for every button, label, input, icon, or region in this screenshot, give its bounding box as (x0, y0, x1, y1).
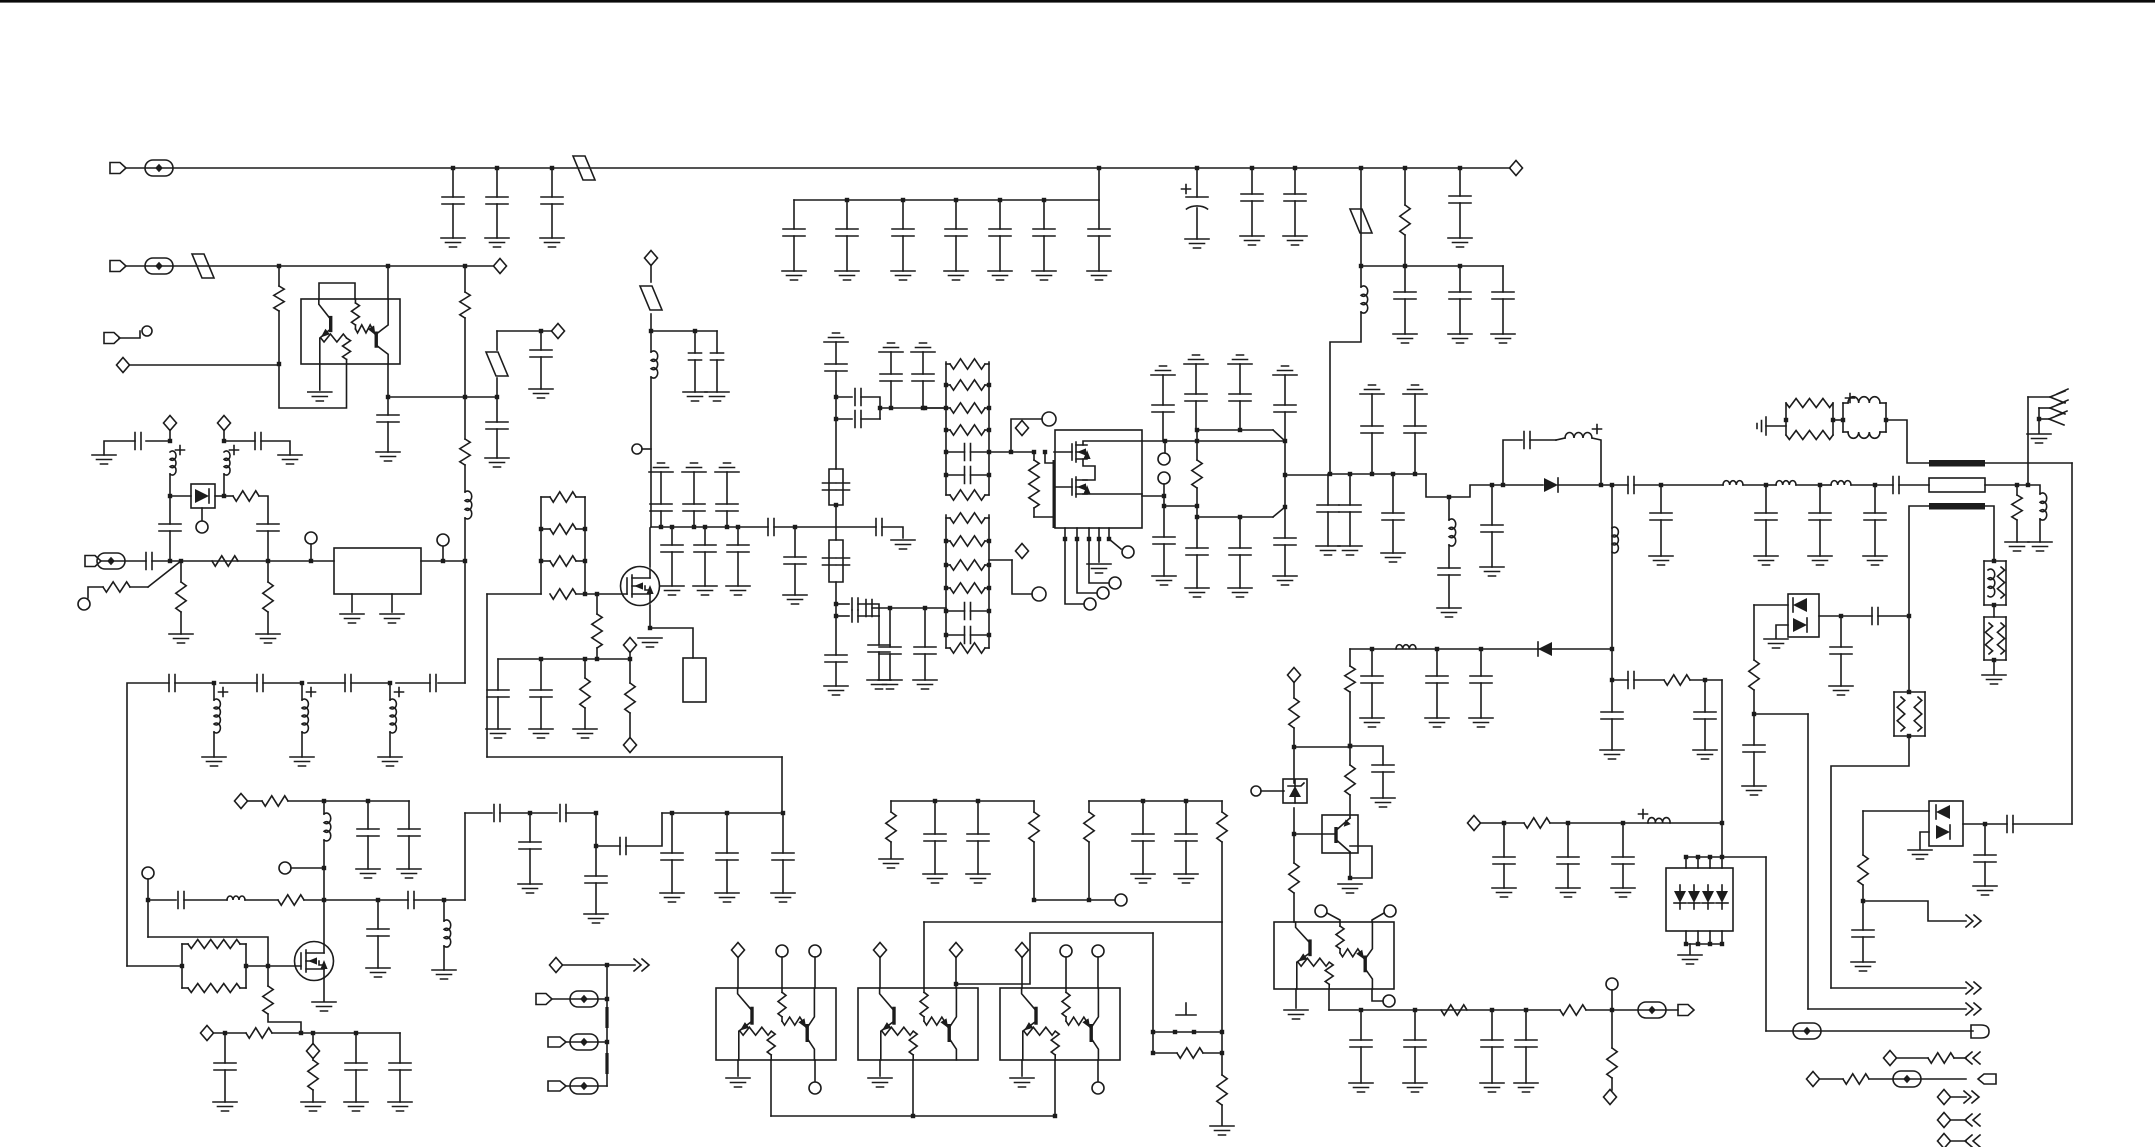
polarity + (395, 688, 404, 697)
diode box D1 (191, 484, 215, 508)
wire (1833, 419, 1843, 421)
wire (355, 1070, 357, 1102)
resistor (950, 536, 985, 546)
wire (388, 396, 497, 398)
ground (1649, 556, 1673, 565)
ground (518, 884, 542, 893)
junction (1162, 494, 1166, 498)
junction (987, 473, 991, 477)
wire (224, 495, 233, 497)
junction (442, 898, 446, 902)
capacitor (257, 524, 279, 531)
wire (529, 813, 531, 842)
wire (1480, 649, 1482, 676)
junction (834, 395, 838, 399)
wire (1436, 649, 1438, 676)
wire (1993, 660, 1995, 674)
ground (1284, 1010, 1308, 1019)
wire (770, 1060, 772, 1116)
wire pin (1697, 857, 1699, 868)
resistor (212, 556, 238, 566)
wire (1899, 484, 1929, 486)
capacitor (1274, 538, 1296, 545)
diode array pin bus (1686, 943, 1722, 945)
ladder right rail (584, 497, 586, 594)
wire rail (1893, 692, 1895, 736)
wire pin (1685, 857, 1687, 868)
wire (1993, 605, 1995, 617)
ground (inverted) (1403, 385, 1427, 394)
wire (1293, 682, 1295, 698)
wire (152, 560, 334, 562)
wire (1043, 236, 1045, 271)
wire (180, 612, 182, 634)
ground (1480, 567, 1504, 576)
wire (1880, 431, 1886, 433)
wire (1951, 1140, 1966, 1142)
wire (1164, 441, 1166, 453)
wire (1459, 299, 1461, 334)
wire (890, 381, 892, 408)
circle terminal (1158, 472, 1170, 484)
junction (376, 898, 380, 902)
resistor (188, 940, 240, 949)
ground (913, 680, 937, 689)
junction (987, 563, 991, 567)
ground (2028, 542, 2052, 551)
wire (878, 616, 880, 645)
input connector J2 (110, 261, 126, 272)
wire pin (1721, 857, 1723, 868)
diamond connector (624, 638, 637, 653)
diode array pin bus (1686, 856, 1766, 858)
ladder A right rail (988, 362, 990, 495)
wire (541, 496, 550, 498)
wire (1221, 1053, 1223, 1075)
capacitor (689, 353, 702, 360)
wire (576, 560, 585, 562)
wire (1021, 957, 1023, 988)
wire (389, 732, 391, 757)
ground (966, 874, 990, 883)
ground (824, 686, 848, 695)
wire top loop (319, 283, 355, 299)
wire (1163, 544, 1165, 576)
inductor (214, 699, 220, 733)
junction (180, 964, 184, 968)
wire (1360, 1010, 1362, 1040)
wire (551, 204, 553, 238)
wire (223, 474, 225, 496)
wire rail (1842, 403, 1844, 432)
junction (1708, 942, 1712, 946)
circle terminal (1032, 587, 1046, 601)
wire (902, 236, 904, 271)
wire (1109, 539, 1121, 549)
wire (169, 430, 171, 441)
junction (1621, 821, 1625, 825)
capacitor (716, 504, 738, 511)
circle terminal (1315, 905, 1327, 917)
diamond connector (218, 416, 231, 431)
wire (596, 845, 620, 847)
wire (584, 659, 586, 678)
wire (1743, 484, 1766, 486)
wire (704, 552, 706, 586)
test point (570, 1078, 598, 1094)
wire (1721, 680, 1723, 857)
wire (835, 505, 837, 540)
circle terminal (809, 1082, 821, 1094)
diamond connector (874, 943, 887, 958)
wire (629, 713, 631, 738)
wire (2039, 418, 2049, 420)
junction (628, 657, 632, 661)
wire (596, 648, 598, 659)
wire (1284, 375, 1286, 405)
junction (670, 811, 674, 815)
wire gate2 (1034, 516, 1054, 518)
wire (650, 628, 693, 658)
wire long (487, 756, 782, 758)
wire (464, 318, 466, 397)
junction (366, 799, 370, 803)
wire rail (1832, 403, 1834, 435)
capacitor (837, 483, 850, 490)
diamond connector (1884, 1051, 1897, 1066)
wire (946, 429, 950, 431)
wire long (1807, 714, 1809, 1009)
capacitor (1350, 1040, 1372, 1047)
capacitor (389, 1063, 411, 1070)
wire (180, 561, 182, 582)
wire (1894, 691, 1925, 693)
wire (215, 495, 224, 497)
capacitor (1809, 513, 1831, 520)
ladder A left rail (945, 362, 947, 495)
ground (715, 893, 739, 902)
junction (1163, 439, 1167, 443)
junction (1490, 483, 1494, 487)
ground (92, 455, 116, 464)
wire (781, 957, 783, 988)
junction (1610, 1008, 1614, 1012)
wire (146, 440, 170, 442)
junction (1042, 198, 1046, 202)
diamond connector (117, 358, 130, 373)
arrow connector (1971, 1025, 1989, 1038)
wire (955, 200, 957, 229)
wire (946, 363, 950, 365)
wire (88, 587, 103, 598)
wire (304, 899, 408, 901)
wire (1371, 394, 1373, 426)
wire (1558, 484, 1628, 486)
capacitor (377, 415, 399, 422)
capacitor (855, 411, 861, 428)
wire (1796, 484, 1820, 486)
wire (245, 899, 278, 901)
junction (1752, 712, 1756, 716)
capacitor to gnd (541, 197, 563, 204)
wire (1951, 1119, 1966, 1121)
ground (529, 389, 553, 398)
wire (224, 440, 255, 442)
wire source link (1083, 459, 1095, 480)
test point (97, 553, 125, 569)
wire (1880, 402, 1886, 404)
wire (1098, 200, 1100, 229)
inductor (1723, 481, 1743, 485)
capacitor (1694, 712, 1716, 719)
junction (463, 395, 467, 399)
wire (1459, 203, 1461, 238)
wire (1689, 944, 1691, 954)
wire (1294, 746, 1350, 748)
junction (659, 525, 663, 529)
inductor (1831, 481, 1851, 485)
test point (570, 991, 598, 1007)
resistor (592, 614, 602, 648)
wire (1704, 719, 1706, 750)
resistor (460, 439, 470, 465)
test point (1793, 1023, 1821, 1039)
capacitor (1361, 426, 1383, 433)
junction (1032, 898, 1036, 902)
wire (971, 451, 990, 453)
dual transistor U1 box (301, 299, 400, 364)
wire (985, 363, 989, 365)
junction (1097, 166, 1101, 170)
wire (1098, 539, 1100, 562)
diode D1 (195, 489, 209, 503)
wire (351, 594, 353, 612)
wire (2027, 397, 2029, 485)
resistor (886, 812, 896, 842)
MOSFET pair gate bar (1053, 460, 1056, 528)
arrow connector (1978, 1074, 1996, 1084)
wire (1707, 885, 1709, 891)
junction (1490, 1008, 1494, 1012)
wire drain (649, 528, 651, 567)
wire (835, 662, 837, 686)
wire (291, 867, 324, 869)
wire (1142, 495, 1164, 497)
wire (1660, 485, 1662, 513)
polarity + (1639, 810, 1648, 819)
wire (1776, 625, 1788, 638)
diamond connector (1016, 544, 1029, 559)
junction (648, 626, 652, 630)
wire (1163, 484, 1165, 496)
wire (1612, 679, 1628, 681)
junction (923, 406, 927, 410)
wire (1327, 913, 1340, 922)
wire (1753, 752, 1755, 786)
wire (367, 836, 369, 869)
ground (1371, 798, 1395, 807)
wire (1163, 506, 1165, 537)
wire (576, 496, 585, 498)
diamond connector (1288, 668, 1301, 683)
junction (1708, 855, 1712, 859)
wire (443, 900, 445, 921)
wire (1065, 539, 1083, 604)
wire (1984, 824, 1986, 855)
junction (987, 539, 991, 543)
resistor (1289, 863, 1299, 893)
junction (888, 606, 892, 610)
test point (570, 1034, 598, 1050)
wire IF (1350, 648, 1612, 650)
ground (726, 1078, 750, 1087)
ground (1210, 1126, 1234, 1135)
capacitor (892, 229, 914, 236)
wire (1221, 1105, 1223, 1125)
junction (1075, 537, 1079, 541)
wire (1293, 747, 1295, 783)
capacitor (494, 805, 500, 822)
resistor (1749, 660, 1759, 690)
wire (1284, 441, 1286, 507)
capacitor (486, 422, 508, 429)
junction (1283, 505, 1287, 509)
junction (1359, 1008, 1363, 1012)
inductor (227, 896, 245, 900)
circle terminal (809, 945, 821, 957)
diamond connector (1938, 1090, 1951, 1105)
junction (322, 866, 326, 870)
capacitor (837, 558, 850, 565)
inductor (465, 491, 472, 519)
wire (1503, 440, 1522, 485)
wire (596, 594, 598, 614)
ferrite bead on VBATT (573, 156, 595, 180)
wire (1033, 508, 1035, 517)
wire (1984, 616, 2006, 618)
wire (1197, 429, 1273, 431)
ladder left rail (540, 497, 542, 594)
coupler winding (primary) (1929, 460, 1985, 467)
off-page arrow (634, 959, 649, 971)
wire (934, 841, 936, 874)
capacitor (772, 853, 794, 860)
wire (924, 921, 1222, 923)
junction (1220, 1030, 1224, 1034)
wire (999, 236, 1001, 271)
wire (312, 1033, 314, 1044)
diamond connector (1938, 1113, 1951, 1128)
wire (1097, 1060, 1099, 1081)
wire (1089, 539, 1108, 583)
junction (901, 198, 905, 202)
junction (1447, 495, 1451, 499)
resistor R4 (550, 589, 576, 599)
inductor (302, 699, 308, 733)
polarity + (1846, 394, 1855, 403)
resistor (2012, 495, 2022, 520)
diode (1674, 891, 1686, 903)
wire (278, 311, 280, 364)
junction (1458, 264, 1462, 268)
wire (1820, 1078, 1843, 1080)
resistor (1560, 1005, 1586, 1015)
net diamond (552, 324, 565, 339)
input connector J3 (104, 333, 120, 344)
junction (692, 525, 696, 529)
wire (955, 236, 957, 271)
wire (1221, 842, 1223, 922)
wire (861, 397, 880, 419)
wire (496, 378, 498, 397)
wire (1033, 842, 1035, 900)
junction (1192, 1030, 1196, 1034)
ground (1228, 588, 1252, 597)
wire (1142, 801, 1144, 834)
junction (1220, 1051, 1224, 1055)
capacitor (661, 545, 683, 552)
wire (497, 697, 499, 729)
wire (880, 407, 946, 409)
capacitor (1515, 1040, 1537, 1047)
capacitor (159, 524, 181, 531)
junction (1479, 647, 1483, 651)
diamond connector (1016, 943, 1029, 958)
zener diode (1289, 786, 1301, 797)
junction (168, 494, 172, 498)
wire pin (1108, 528, 1110, 539)
capacitor (784, 557, 806, 564)
wire (399, 1070, 401, 1102)
diamond connector (235, 794, 248, 809)
junction (944, 586, 948, 590)
resistor (950, 513, 985, 523)
wire (693, 511, 695, 527)
wire (1293, 893, 1295, 922)
wire (584, 708, 586, 729)
ground (inverted) (911, 343, 935, 352)
wire (272, 1032, 400, 1034)
antenna fan 2 (2050, 400, 2068, 414)
ground (1851, 962, 1875, 971)
capacitor (1864, 513, 1886, 520)
off-page arrow (1966, 982, 1981, 994)
wire (1819, 520, 1821, 556)
wire (1448, 575, 1450, 608)
ground (835, 271, 859, 280)
wire (278, 266, 280, 286)
junction (1087, 898, 1091, 902)
junction (725, 525, 729, 529)
ground (1764, 639, 1788, 648)
wire (2016, 520, 2018, 542)
capacitor (1394, 292, 1416, 299)
wire (414, 899, 465, 901)
wire (595, 846, 597, 876)
wire pin (1709, 931, 1711, 944)
junction (1195, 504, 1199, 508)
wire (301, 683, 303, 700)
junction (1097, 537, 1101, 541)
ground (1174, 874, 1198, 883)
wire (1392, 520, 1394, 553)
capacitor (1033, 229, 1055, 236)
off-page arrow (1966, 915, 1981, 927)
wire (781, 757, 783, 813)
wire (726, 511, 728, 527)
off-page arrow (1965, 1135, 1980, 1147)
wire (1586, 1009, 1678, 1011)
